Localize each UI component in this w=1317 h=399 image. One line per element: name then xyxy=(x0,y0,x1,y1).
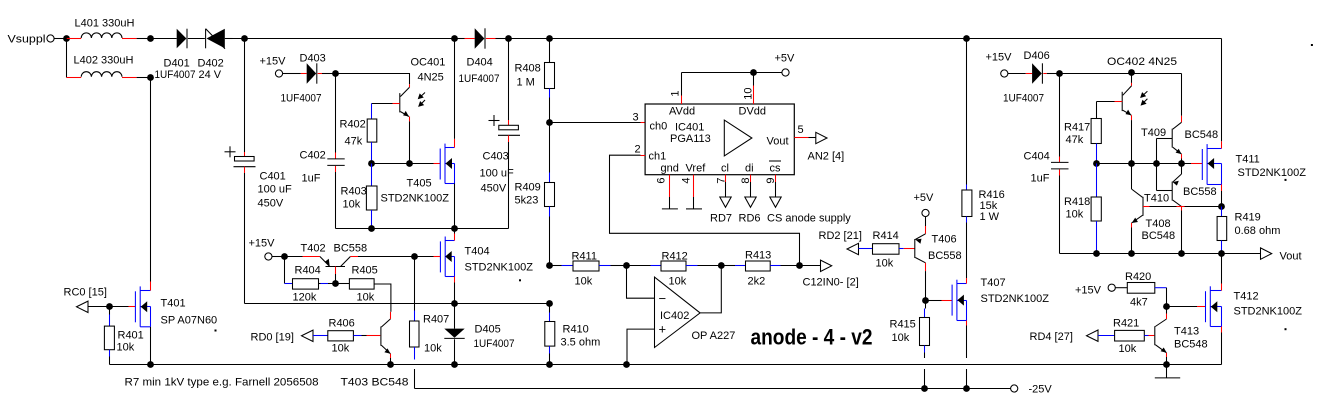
svg-text:R414: R414 xyxy=(873,230,899,242)
junction T405 drain at top rail xyxy=(451,35,458,42)
node Vsuppl terminal xyxy=(8,34,67,46)
svg-text:CS anode supply: CS anode supply xyxy=(767,213,851,225)
resistor R418 10k xyxy=(1064,164,1101,254)
resistor R421 10k xyxy=(1098,318,1154,356)
svg-text:6: 6 xyxy=(656,178,668,184)
pin 10 DVdd xyxy=(743,73,755,105)
junction pin10 node xyxy=(750,69,757,76)
wire ground rail xyxy=(110,364,1222,366)
optocoupler OC401 4N25 xyxy=(372,57,446,164)
resistor R407 10k xyxy=(410,257,450,389)
resistor R408 1M xyxy=(515,39,555,123)
stray dot 3 xyxy=(1285,179,1287,181)
diode D403 1UF4007 xyxy=(281,53,336,105)
wire block rail C402-C403 xyxy=(336,228,509,230)
transistor T413 BC548 (npn) xyxy=(1155,307,1208,365)
junction op-amp output node xyxy=(718,262,725,269)
node C12IN0- [2] xyxy=(800,260,859,288)
node RD4 [27] xyxy=(1030,330,1099,343)
svg-text:R421: R421 xyxy=(1113,318,1139,330)
svg-text:C403: C403 xyxy=(483,151,509,163)
optocoupler OC402 4N25 xyxy=(1097,56,1178,164)
terminal +15V (D403) xyxy=(260,56,297,78)
wire ch0 xyxy=(550,122,646,124)
junction T409/T410 emitter node xyxy=(1178,160,1185,167)
stray dot 2 xyxy=(519,279,521,281)
svg-text:+15V: +15V xyxy=(260,56,287,68)
svg-text:L401 330uH: L401 330uH xyxy=(75,18,135,30)
svg-text:10k: 10k xyxy=(1066,209,1084,221)
svg-text:ch0: ch0 xyxy=(650,121,668,133)
resistor R416 15k 1W xyxy=(962,39,1005,279)
inductor L401 330uH xyxy=(67,18,151,39)
svg-text:1UF4007: 1UF4007 xyxy=(459,73,500,85)
svg-text:DVdd: DVdd xyxy=(739,106,767,118)
svg-text:D402: D402 xyxy=(198,58,224,70)
junction D406 cathode node xyxy=(1056,70,1063,77)
svg-text:+: + xyxy=(659,322,667,337)
svg-text:cs: cs xyxy=(770,163,782,175)
svg-text:OP A227: OP A227 xyxy=(692,330,736,342)
svg-text:BC558: BC558 xyxy=(334,243,368,255)
resistor R406 10k xyxy=(313,318,380,355)
junction T401 source at rail xyxy=(147,361,154,368)
resistor R412 10k xyxy=(627,251,722,288)
svg-text:di: di xyxy=(745,163,754,175)
svg-text:R417: R417 xyxy=(1064,122,1090,134)
transistor T404 STD2NK100Z (n-mosfet) xyxy=(415,229,534,304)
junction T401 gate node xyxy=(106,303,113,310)
pin 8 di / node RD6 xyxy=(739,175,761,225)
wire D406 node to T409 collector xyxy=(1060,74,1182,123)
svg-text:BC558: BC558 xyxy=(928,250,962,262)
transistor T405 STD2NK100Z (n-mosfet) xyxy=(381,39,455,229)
ground (gnd pin) xyxy=(662,208,678,210)
svg-text:1: 1 xyxy=(670,91,682,97)
svg-text:STD2NK100Z: STD2NK100Z xyxy=(981,293,1050,305)
junction R417/R418 node xyxy=(1093,160,1100,167)
junction C12IN0 node xyxy=(796,262,803,269)
junction R411 left node xyxy=(546,262,553,269)
svg-text:+5V: +5V xyxy=(775,53,796,65)
svg-text:D401: D401 xyxy=(164,58,190,70)
svg-text:450V: 450V xyxy=(481,183,507,195)
terminal +15V (T402) xyxy=(249,238,285,261)
pin 2 ch1 xyxy=(635,144,646,156)
svg-text:R410: R410 xyxy=(563,324,589,336)
svg-text:R406: R406 xyxy=(329,318,355,330)
terminal +5V (IC401) xyxy=(775,53,796,77)
wire T410 collector to output rail xyxy=(1181,211,1183,254)
svg-text:R405: R405 xyxy=(352,265,378,277)
junction OC402 collector node xyxy=(1128,69,1135,76)
svg-text:10k: 10k xyxy=(357,292,375,304)
svg-text:120k: 120k xyxy=(293,292,317,304)
svg-text:10k: 10k xyxy=(892,332,910,344)
junction T413 emitter at rail xyxy=(1163,361,1170,368)
resistor R411 10k xyxy=(550,251,627,288)
svg-text:D403: D403 xyxy=(300,53,326,65)
capacitor C401 100uF 450V xyxy=(225,39,293,304)
node RC0 [15] xyxy=(64,287,110,313)
svg-text:T407: T407 xyxy=(981,277,1006,289)
svg-text:D406: D406 xyxy=(1024,50,1050,62)
svg-text:C402: C402 xyxy=(300,150,326,162)
svg-text:1 M: 1 M xyxy=(517,77,535,89)
svg-text:100 uF: 100 uF xyxy=(258,184,293,196)
diode D402 24V xyxy=(198,29,233,81)
wire D403 node to OC401 collector xyxy=(336,74,410,85)
svg-text:T404: T404 xyxy=(465,246,490,258)
wire gate node to T412 xyxy=(1167,306,1206,308)
svg-text:Vsuppl: Vsuppl xyxy=(8,34,46,46)
svg-text:R408: R408 xyxy=(515,63,541,75)
svg-text:47k: 47k xyxy=(1066,134,1084,146)
capacitor C403 100uF 450V xyxy=(480,39,521,229)
wire ch1 to output node xyxy=(610,155,800,266)
svg-text:BC558: BC558 xyxy=(1183,186,1217,198)
junction R415 at -25V line xyxy=(921,385,928,392)
svg-text:T409: T409 xyxy=(1141,127,1166,139)
svg-text:R7 min 1kV type e.g. Farnell: R7 min 1kV type e.g. Farnell 2056508 xyxy=(125,377,319,389)
svg-text:Vout: Vout xyxy=(767,136,789,148)
junction R408 top xyxy=(546,35,553,42)
pin 6 gnd xyxy=(656,175,670,209)
svg-text:RD4 [27]: RD4 [27] xyxy=(1030,331,1073,343)
svg-text:D405: D405 xyxy=(475,324,501,336)
svg-text:−: − xyxy=(659,291,667,306)
svg-text:R403: R403 xyxy=(341,186,367,198)
svg-text:SP A07N60: SP A07N60 xyxy=(161,315,218,327)
svg-text:1UF4007: 1UF4007 xyxy=(474,338,515,350)
svg-text:10k: 10k xyxy=(332,343,350,355)
inductor L402 330uH xyxy=(67,39,151,78)
junction T404 source node xyxy=(451,300,458,307)
terminal -25V xyxy=(1011,384,1053,396)
junction R410 at rail xyxy=(546,361,553,368)
svg-text:3.5 ohm: 3.5 ohm xyxy=(561,337,601,349)
capacitor C404 1uF xyxy=(1024,74,1069,254)
svg-text:T411: T411 xyxy=(1236,154,1260,166)
ground (Vref pin) xyxy=(686,208,702,210)
junction C401 top xyxy=(241,35,248,42)
node Vout xyxy=(1261,248,1302,263)
resistor R419 0.68 ohm xyxy=(1217,207,1280,254)
junction output rail xyxy=(1093,250,1225,257)
svg-text:2: 2 xyxy=(635,144,641,156)
svg-text:10k: 10k xyxy=(575,276,593,288)
svg-text:1UF4007: 1UF4007 xyxy=(155,69,196,81)
junction L401/L402 right xyxy=(147,35,154,81)
wire R405 to T403 collector xyxy=(374,284,391,312)
junction R402/R403 gate node xyxy=(368,160,413,167)
resistor R405 10k xyxy=(336,265,378,304)
svg-text:24 V: 24 V xyxy=(199,69,222,81)
svg-text:Vout: Vout xyxy=(1280,251,1302,263)
svg-text:AN2 [4]: AN2 [4] xyxy=(808,151,845,163)
svg-text:STD2NK100Z: STD2NK100Z xyxy=(1234,306,1303,318)
pin 7 cl / node RD7 xyxy=(710,175,732,225)
transistor T401 SPA07N60 (n-mosfet) xyxy=(110,78,218,365)
svg-text:R404: R404 xyxy=(295,265,321,277)
resistor R404 120k xyxy=(285,257,336,304)
diode D405 1UF4007 xyxy=(444,304,514,365)
ground (T413) xyxy=(1155,365,1180,378)
junction Vsuppl left xyxy=(63,35,70,42)
junction T406 collector node xyxy=(922,297,929,304)
svg-text:BC548: BC548 xyxy=(1142,230,1176,242)
svg-text:Vref: Vref xyxy=(686,163,707,175)
junction T402 base node xyxy=(332,280,339,287)
transistor T412 STD2NK100Z (n-mosfet) xyxy=(1206,254,1303,365)
svg-text:IC402: IC402 xyxy=(660,310,689,322)
wire -25V line xyxy=(415,388,1011,390)
svg-text:T413: T413 xyxy=(1174,326,1199,338)
svg-text:STD2NK100Z: STD2NK100Z xyxy=(465,262,534,274)
junction T409/T410 base node xyxy=(1153,160,1160,167)
resistor R420 4k7 xyxy=(1125,271,1167,309)
wire plus input xyxy=(627,329,655,365)
svg-text:10k: 10k xyxy=(876,258,894,270)
svg-text:C404: C404 xyxy=(1024,151,1050,163)
junction R416 top xyxy=(963,35,970,42)
svg-text:ch1: ch1 xyxy=(649,151,667,163)
resistor R409 5k23 xyxy=(515,123,555,266)
junction T407 source at -25V line xyxy=(963,385,970,392)
svg-text:T412: T412 xyxy=(1234,291,1259,303)
wire minus input xyxy=(627,266,655,298)
transistor T402 BC558 (pnp) xyxy=(285,243,415,284)
diode D406 1UF4007 xyxy=(1003,50,1060,105)
svg-text:4k7: 4k7 xyxy=(1130,297,1148,309)
junction C403 top xyxy=(505,35,512,42)
svg-text:RD2 [21]: RD2 [21] xyxy=(819,230,862,242)
resistor R402 47k xyxy=(340,104,377,164)
svg-text:RD0 [19]: RD0 [19] xyxy=(251,332,294,344)
svg-text:STD2NK100Z: STD2NK100Z xyxy=(1238,167,1307,179)
svg-text:OC402 4N25: OC402 4N25 xyxy=(1107,56,1177,68)
transistor T410 BC558 (pnp) xyxy=(1144,164,1217,211)
svg-text:-25V: -25V xyxy=(1029,384,1053,396)
svg-text:4: 4 xyxy=(681,178,693,184)
resistor R410 3.5 ohm xyxy=(545,304,600,365)
svg-text:C401: C401 xyxy=(260,171,286,183)
svg-text:gnd: gnd xyxy=(661,163,679,175)
junction D403 cathode node xyxy=(332,70,339,77)
junction T411 source node xyxy=(1218,203,1225,210)
terminal +15V (R420) xyxy=(1075,284,1127,296)
svg-text:T408: T408 xyxy=(1146,218,1171,230)
node RD2 [21] xyxy=(819,230,862,255)
op-amp IC401 PGA113 xyxy=(645,104,794,175)
svg-text:R415: R415 xyxy=(890,319,916,331)
svg-text:4N25: 4N25 xyxy=(418,72,444,84)
svg-text:RC0 [15]: RC0 [15] xyxy=(64,287,107,299)
transistor T403 BC548 (npn) xyxy=(381,312,391,365)
wire C401 bottom to R410 node xyxy=(245,303,550,305)
svg-text:D404: D404 xyxy=(467,57,493,69)
svg-text:IC401: IC401 xyxy=(675,122,704,134)
svg-text:T405: T405 xyxy=(407,178,432,190)
svg-text:10k: 10k xyxy=(424,343,442,355)
svg-text:1uF: 1uF xyxy=(1031,173,1050,185)
capacitor C402 1uF xyxy=(300,74,345,229)
transistor T408 BC548 (npn) xyxy=(1132,164,1222,254)
wire right block mid rail xyxy=(1097,163,1203,165)
transistor T406 BC558 (pnp) xyxy=(915,217,962,301)
svg-text:R413: R413 xyxy=(745,250,771,262)
stray dot 4 xyxy=(1285,328,1287,330)
junction D405 at rail xyxy=(451,361,458,368)
svg-text:+15V: +15V xyxy=(1075,285,1102,297)
resistor R414 10k xyxy=(859,230,915,270)
svg-text:+15V: +15V xyxy=(986,52,1013,64)
resistor R415 10k xyxy=(890,301,930,389)
svg-text:1UF4007: 1UF4007 xyxy=(281,93,322,105)
stray dot 1 xyxy=(215,330,217,332)
svg-text:R407: R407 xyxy=(423,314,449,326)
svg-text:T406: T406 xyxy=(932,234,957,246)
transistor T411 STD2NK100Z (n-mosfet) xyxy=(1202,39,1306,207)
svg-text:T403 BC548: T403 BC548 xyxy=(341,377,409,389)
wire gate node to T405 xyxy=(372,163,441,165)
svg-text:R401: R401 xyxy=(118,330,144,342)
pin 1 AVdd xyxy=(670,73,682,105)
junction T403 emitter at rail xyxy=(387,361,394,368)
svg-text:47k: 47k xyxy=(345,136,363,148)
svg-text:R418: R418 xyxy=(1064,196,1090,208)
terminal +5V (T406) xyxy=(914,192,935,217)
svg-text:450V: 450V xyxy=(258,198,284,210)
svg-text:10k: 10k xyxy=(343,199,361,211)
svg-text:T401: T401 xyxy=(161,298,186,310)
wire T406 collector to T407 gate xyxy=(926,300,953,302)
svg-text:5k23: 5k23 xyxy=(515,195,539,207)
svg-text:3: 3 xyxy=(633,112,639,124)
svg-text:AVdd: AVdd xyxy=(669,106,695,118)
svg-text:R420: R420 xyxy=(1125,271,1151,283)
junction op-amp minus node xyxy=(623,262,630,269)
svg-text:C12IN0- [2]: C12IN0- [2] xyxy=(803,277,859,289)
stray dot 5 xyxy=(1311,44,1313,46)
diode D401 1UF4007 xyxy=(151,29,205,81)
svg-text:BC548: BC548 xyxy=(1174,339,1208,351)
junction block rail xyxy=(368,225,458,232)
svg-text:STD2NK100Z: STD2NK100Z xyxy=(381,193,450,205)
svg-text:cl: cl xyxy=(721,163,729,175)
terminal +15V (D406) xyxy=(986,52,1026,78)
svg-text:1uF: 1uF xyxy=(302,173,321,185)
node RD0 [19] xyxy=(251,330,314,343)
svg-text:2k2: 2k2 xyxy=(748,276,766,288)
op-amp IC402 OPA227 xyxy=(655,266,736,348)
svg-text:10k: 10k xyxy=(117,342,135,354)
resistor R403 10k xyxy=(341,164,378,229)
junction T404 gate node xyxy=(411,253,418,260)
svg-text:anode - 4 - v2: anode - 4 - v2 xyxy=(751,325,873,350)
pin 9 cs / node CS anode supply xyxy=(765,175,851,225)
svg-text:R419: R419 xyxy=(1235,212,1261,224)
svg-text:RD7: RD7 xyxy=(710,213,732,225)
svg-text:BC548: BC548 xyxy=(1185,129,1219,141)
svg-text:T402: T402 xyxy=(301,243,326,255)
junction OC402 emitter node xyxy=(1128,160,1135,167)
svg-text:1 W: 1 W xyxy=(980,211,1000,223)
svg-text:RD6: RD6 xyxy=(739,213,761,225)
svg-text:R402: R402 xyxy=(340,119,366,131)
wire top rail xyxy=(233,38,1222,40)
wire output rail xyxy=(1060,253,1261,255)
junction op-amp plus at rail xyxy=(623,361,630,368)
junction +15V node xyxy=(281,253,288,260)
svg-text:1UF4007: 1UF4007 xyxy=(1003,93,1044,105)
wire +5V supply to pins xyxy=(682,72,783,74)
svg-text:R409: R409 xyxy=(515,182,541,194)
svg-text:10: 10 xyxy=(743,88,755,100)
svg-text:OC401: OC401 xyxy=(411,57,446,69)
pin 4 Vref xyxy=(681,175,694,209)
resistor R417 47k xyxy=(1064,102,1101,164)
svg-text:0.68 ohm: 0.68 ohm xyxy=(1235,225,1281,237)
transistor T407 STD2NK100Z (n-mosfet) xyxy=(952,277,1049,389)
resistor R401 10k xyxy=(104,307,143,365)
svg-text:+5V: +5V xyxy=(914,192,935,204)
pin 5 Vout / node AN2 [4] xyxy=(794,124,844,163)
svg-text:5: 5 xyxy=(798,124,804,136)
svg-text:PGA113: PGA113 xyxy=(670,133,711,145)
svg-text:+15V: +15V xyxy=(249,238,276,250)
diode D404 1UF4007 xyxy=(455,28,509,85)
transistor T409 BC548 (npn) xyxy=(1141,122,1218,163)
svg-text:T410: T410 xyxy=(1144,193,1169,205)
svg-text:L402 330uH: L402 330uH xyxy=(74,55,134,67)
junction R410 top node xyxy=(546,300,553,307)
svg-text:10k: 10k xyxy=(669,276,687,288)
junction T412 gate node xyxy=(1163,303,1170,310)
svg-text:10k: 10k xyxy=(1119,343,1137,355)
junction ch0 node xyxy=(546,119,553,126)
resistor R413 2k2 xyxy=(721,250,799,288)
